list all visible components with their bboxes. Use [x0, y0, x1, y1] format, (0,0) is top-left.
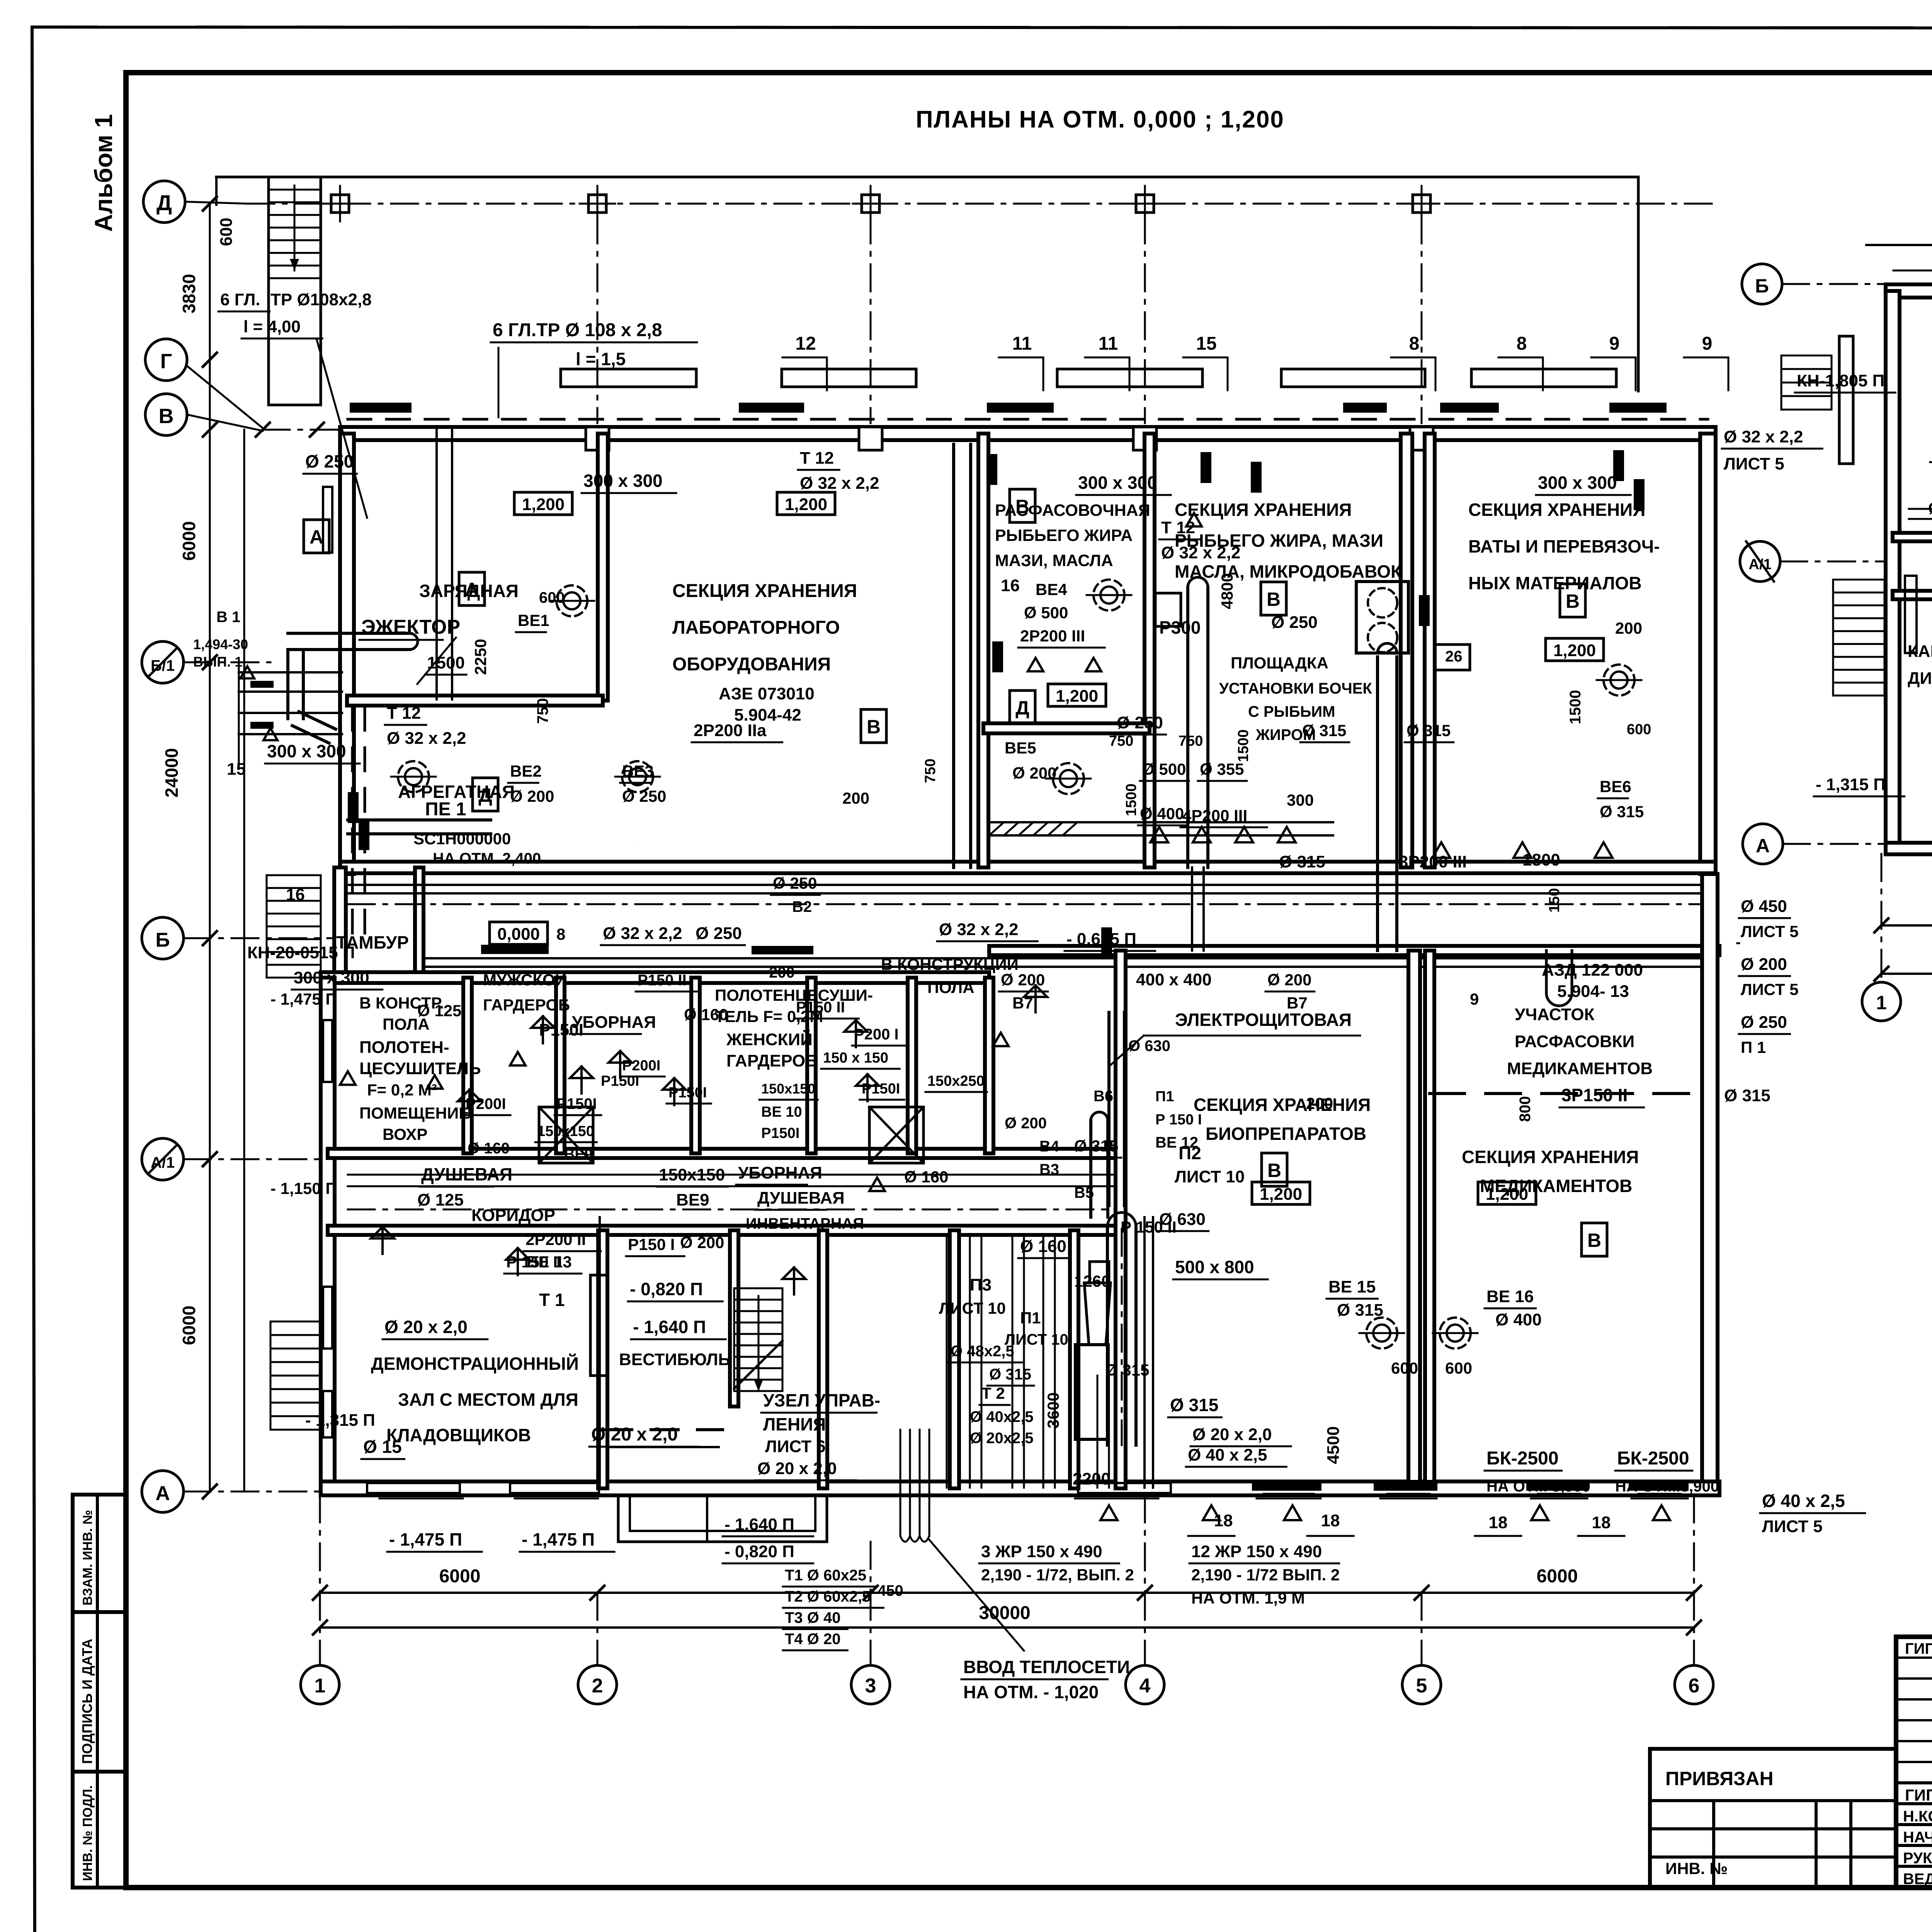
top-left stair	[269, 177, 321, 405]
svg-text:НЫХ МАТЕРИАЛОВ: НЫХ МАТЕРИАЛОВ	[1468, 573, 1642, 593]
svg-text:П1: П1	[1020, 1309, 1041, 1327]
svg-text:Ø 315: Ø 315	[1105, 1361, 1149, 1379]
columns on axis Д	[331, 195, 349, 213]
0.000 block outer walls	[321, 978, 335, 1492]
svg-text:ЛАБОРАТОРНОГО: ЛАБОРАТОРНОГО	[672, 617, 840, 638]
svg-text:В2: В2	[792, 898, 812, 915]
U-duct near AZD	[1545, 951, 1548, 993]
svg-text:П1: П1	[1155, 1088, 1174, 1105]
left outside stair bottom	[270, 1321, 321, 1323]
svg-text:Т3 Ø 40: Т3 Ø 40	[785, 1609, 841, 1626]
svg-text:ВЕ1: ВЕ1	[518, 611, 549, 629]
svg-text:2Р200 III: 2Р200 III	[1020, 627, 1085, 645]
svg-text:18: 18	[1592, 1513, 1611, 1532]
svg-text:9: 9	[1470, 990, 1479, 1008]
svg-text:Ø 32 х 2,2: Ø 32 х 2,2	[1161, 543, 1240, 562]
svg-text:КН-1,805 П: КН-1,805 П	[1797, 371, 1884, 390]
svg-text:ВЫП. 1: ВЫП. 1	[193, 654, 242, 670]
svg-text:ВАТЫ И ПЕРЕВЯЗОЧ-: ВАТЫ И ПЕРЕВЯЗОЧ-	[1468, 536, 1660, 556]
tambur walls	[415, 867, 423, 978]
svg-text:Т1 Ø 60х25: Т1 Ø 60х25	[785, 1567, 866, 1584]
svg-text:F= 0,2 М²: F= 0,2 М²	[367, 1081, 437, 1099]
svg-text:ИНВ. №: ИНВ. №	[1665, 1859, 1728, 1878]
svg-text:Д: Д	[156, 190, 172, 215]
plan2 broken upper boundary	[1866, 244, 1932, 246]
svg-text:Ø 40х2,5: Ø 40х2,5	[970, 1408, 1034, 1425]
svg-text:Ø 40 х 2,5: Ø 40 х 2,5	[1188, 1446, 1267, 1464]
svg-text:Ø 160: Ø 160	[1020, 1237, 1066, 1256]
svg-text:2,190 - 1/72, ВЫП. 2: 2,190 - 1/72, ВЫП. 2	[981, 1566, 1134, 1584]
svg-text:6000: 6000	[439, 1566, 481, 1587]
tall ducts near electro room	[1089, 1121, 1092, 1217]
svg-text:Т 1: Т 1	[539, 1290, 565, 1310]
svg-text:2200: 2200	[1073, 1469, 1111, 1488]
svg-text:6000: 6000	[1537, 1566, 1578, 1587]
svg-text:УБОРНАЯ: УБОРНАЯ	[572, 1013, 656, 1032]
svg-text:Ø 250: Ø 250	[696, 924, 742, 943]
svg-text:Р150 II: Р150 II	[638, 972, 687, 989]
svg-text:300 х 300: 300 х 300	[1538, 473, 1617, 493]
svg-text:l = 1,5: l = 1,5	[576, 349, 626, 369]
svg-text:200: 200	[842, 789, 869, 807]
riser flags	[542, 1016, 544, 1043]
svg-text:- 1,640 П: - 1,640 П	[633, 1317, 706, 1337]
svg-text:2Р200 II: 2Р200 II	[526, 1230, 586, 1248]
dashed upper boundary medikamenty	[1430, 1092, 1704, 1095]
svg-text:Ø 20х2,5: Ø 20х2,5	[970, 1430, 1034, 1447]
svg-text:150х150: 150х150	[659, 1165, 725, 1184]
svg-text:ЖЕНСКИЙ: ЖЕНСКИЙ	[726, 1029, 813, 1049]
axis Г/В dash-dot	[263, 429, 340, 431]
bottom wall radiators	[1252, 1480, 1321, 1491]
KH panel left	[1839, 336, 1853, 464]
black duct dampers	[1201, 452, 1211, 483]
svg-text:ПОЛОТЕНЦЕСУШИ-: ПОЛОТЕНЦЕСУШИ-	[715, 986, 873, 1004]
svg-text:ВЗАМ. ИНВ. №: ВЗАМ. ИНВ. №	[80, 1510, 95, 1605]
axis Б/1	[142, 641, 184, 683]
svg-text:Ø 20 х 2,0: Ø 20 х 2,0	[1192, 1425, 1272, 1444]
axis А	[142, 1471, 184, 1512]
0.000 partitions lower row	[598, 1230, 607, 1488]
fans top band	[1094, 580, 1124, 611]
svg-text:l = 4,00: l = 4,00	[243, 317, 301, 336]
svg-text:П3: П3	[970, 1276, 992, 1294]
svg-text:Ø 32 х 2,2: Ø 32 х 2,2	[1724, 427, 1803, 446]
svg-text:ЭЛЕКТРОЩИТОВАЯ: ЭЛЕКТРОЩИТОВАЯ	[1175, 1010, 1352, 1030]
svg-text:18: 18	[1321, 1511, 1340, 1530]
svg-text:ЛИСТ 5: ЛИСТ 5	[1741, 980, 1799, 998]
left outside stair mid	[267, 874, 321, 876]
svg-text:400 х 400: 400 х 400	[1136, 970, 1212, 989]
svg-text:РЫБЬЕГО ЖИРА: РЫБЬЕГО ЖИРА	[995, 526, 1133, 545]
axis Б	[142, 917, 184, 959]
pipe strip between blocks	[348, 884, 1708, 886]
svg-text:Б/1: Б/1	[151, 657, 175, 674]
svg-text:В КОНСТРУКЦИИ: В КОНСТРУКЦИИ	[881, 955, 1019, 973]
svg-text:А: А	[155, 1482, 170, 1505]
svg-text:750: 750	[922, 759, 939, 783]
svg-text:750: 750	[1109, 733, 1133, 749]
vestibule stair	[734, 1287, 782, 1289]
platform band Ploshchadka	[1155, 821, 1333, 823]
0.000 partitions upper row	[463, 978, 472, 1153]
svg-text:6 ГЛ.ТР Ø 108 х 2,8: 6 ГЛ.ТР Ø 108 х 2,8	[493, 320, 662, 340]
svg-text:15: 15	[1196, 333, 1216, 354]
svg-text:СЕКЦИЯ ХРАНЕНИЯ: СЕКЦИЯ ХРАНЕНИЯ	[1462, 1147, 1639, 1167]
svg-text:ПЛАНЫ НА ОТМ. 0,000 ; 1,20: ПЛАНЫ НА ОТМ. 0,000 ; 1,200	[916, 106, 1284, 133]
svg-text:Ø 500: Ø 500	[1024, 604, 1068, 622]
svg-text:9: 9	[1609, 333, 1620, 354]
svg-text:Р150I: Р150I	[761, 1125, 799, 1141]
svg-text:3830: 3830	[179, 274, 199, 313]
svg-text:ПОЛОТЕН-: ПОЛОТЕН-	[359, 1038, 449, 1057]
svg-text:СЕКЦИЯ ХРАНЕНИЯ: СЕКЦИЯ ХРАНЕНИЯ	[672, 581, 857, 601]
svg-text:МАЗИ, МАСЛА: МАЗИ, МАСЛА	[995, 551, 1113, 570]
duct in zaryadnaya right wall	[435, 430, 438, 699]
top band outer walls (1.200 level)	[340, 427, 1716, 440]
svg-text:Т4 Ø 20: Т4 Ø 20	[785, 1631, 841, 1648]
svg-text:В: В	[1566, 590, 1580, 612]
level mark boxes	[514, 492, 572, 515]
svg-text:150х150: 150х150	[537, 1123, 594, 1139]
corridor walls 0.000	[328, 1149, 1121, 1158]
svg-text:Ø 40 х 2,5: Ø 40 х 2,5	[1762, 1491, 1845, 1511]
signatures table	[1896, 1637, 1932, 1888]
svg-text:600: 600	[1391, 1359, 1418, 1377]
svg-text:- 0,820 П: - 0,820 П	[630, 1279, 703, 1299]
svg-text:ГАРДЕРОБ: ГАРДЕРОБ	[726, 1051, 818, 1070]
svg-text:Ø 315: Ø 315	[1337, 1301, 1383, 1320]
svg-text:Ø 250: Ø 250	[1741, 1013, 1787, 1032]
svg-text:Ø 160: Ø 160	[684, 1005, 728, 1024]
svg-text:Ø 250: Ø 250	[1117, 713, 1163, 732]
axis circle Д	[143, 181, 185, 223]
plan2 left outside stair	[1833, 579, 1884, 581]
svg-text:А: А	[465, 579, 479, 600]
svg-text:450: 450	[878, 1582, 903, 1599]
svg-text:3: 3	[865, 1675, 876, 1697]
radiators top wall	[350, 403, 412, 413]
svg-text:750: 750	[534, 698, 551, 724]
svg-text:БК-2500: БК-2500	[1617, 1448, 1689, 1469]
svg-text:ЦЕСУШИТЕЛЬ: ЦЕСУШИТЕЛЬ	[359, 1059, 481, 1078]
svg-text:А: А	[310, 526, 323, 548]
500x800 duct vertical	[1106, 1227, 1109, 1445]
svg-text:Ø 20 х 2,0: Ø 20 х 2,0	[591, 1424, 678, 1445]
svg-text:ВЕ4: ВЕ4	[1036, 580, 1067, 599]
svg-text:200: 200	[769, 964, 795, 981]
svg-text:Ø 200: Ø 200	[1005, 1115, 1047, 1132]
svg-text:150: 150	[1546, 888, 1563, 912]
svg-text:- 1,475 П: - 1,475 П	[389, 1529, 462, 1549]
X-box shafts	[539, 1107, 593, 1163]
svg-text:4800: 4800	[1218, 573, 1236, 609]
T1 riser on wall	[590, 1275, 607, 1376]
svg-text:4500: 4500	[1324, 1426, 1343, 1464]
plan2 pipe runs corridor	[1909, 518, 1932, 520]
svg-text:В3: В3	[1039, 1161, 1059, 1178]
svg-text:Ø 315: Ø 315	[1074, 1137, 1118, 1155]
svg-text:Ø 160: Ø 160	[468, 1140, 510, 1157]
svg-text:16: 16	[286, 885, 305, 904]
svg-text:Ø 250: Ø 250	[305, 451, 354, 471]
left wall window marks	[323, 487, 332, 553]
svg-text:6000: 6000	[179, 521, 199, 561]
svg-text:В: В	[1267, 588, 1281, 610]
svg-text:Р150 I: Р150 I	[628, 1235, 675, 1253]
dashed 300x300 duct agregatnaya	[351, 707, 354, 943]
svg-text:300 х 300: 300 х 300	[583, 471, 663, 491]
svg-text:ИНВЕНТАРНАЯ: ИНВЕНТАРНАЯ	[746, 1215, 864, 1232]
svg-text:30000: 30000	[979, 1603, 1030, 1623]
svg-text:1,200: 1,200	[522, 495, 565, 514]
ejector duct	[288, 648, 410, 651]
svg-text:ЛИСТ 5: ЛИСТ 5	[1762, 1517, 1823, 1536]
svg-text:ВЕ6: ВЕ6	[1600, 777, 1631, 796]
svg-text:В5: В5	[1074, 1184, 1094, 1201]
svg-text:1260: 1260	[1074, 1272, 1110, 1290]
left margin stamp boxes	[73, 1495, 126, 1888]
big vertical duct risers top band	[1186, 587, 1189, 867]
svg-text:Ø 400: Ø 400	[1495, 1310, 1542, 1329]
box 26	[1434, 645, 1470, 670]
svg-text:Ø 250: Ø 250	[1271, 613, 1318, 632]
svg-text:ДИРЕКТОРА: ДИРЕКТОРА	[1908, 669, 1932, 688]
svg-text:ЛИСТ 10: ЛИСТ 10	[1005, 1331, 1068, 1348]
svg-text:1,494-30: 1,494-30	[193, 636, 248, 652]
svg-text:ВЕ 16: ВЕ 16	[1486, 1287, 1534, 1306]
svg-text:ГИП: ГИП	[1905, 1640, 1932, 1657]
svg-text:А/1: А/1	[151, 1154, 175, 1171]
svg-text:500 х 800: 500 х 800	[1175, 1257, 1254, 1277]
svg-text:В7: В7	[1012, 994, 1033, 1012]
porch below vestibule	[618, 1495, 827, 1542]
svg-text:А: А	[1756, 835, 1770, 857]
wall pilasters	[586, 427, 609, 450]
svg-text:Ø 315: Ø 315	[1302, 721, 1346, 740]
svg-text:Н.КОНТР.: Н.КОНТР.	[1903, 1808, 1932, 1825]
plan2 heating dashed top	[1893, 270, 1932, 272]
svg-text:УЗЕЛ УПРАВ-: УЗЕЛ УПРАВ-	[763, 1390, 880, 1410]
svg-text:Ø 125: Ø 125	[417, 1190, 464, 1209]
svg-text:ВВОД ТЕПЛОСЕТИ: ВВОД ТЕПЛОСЕТИ	[963, 1657, 1130, 1677]
outer thin border	[32, 27, 1932, 28]
svg-text:2Р200 IIа: 2Р200 IIа	[694, 721, 767, 740]
svg-text:Ø 315: Ø 315	[1279, 852, 1325, 871]
svg-text:1500: 1500	[1123, 784, 1139, 816]
svg-text:ПЕ 1: ПЕ 1	[425, 799, 466, 820]
plan2 axis circles left	[1742, 264, 1782, 304]
svg-text:8: 8	[556, 925, 565, 943]
svg-text:ЛИСТ 10: ЛИСТ 10	[1175, 1167, 1245, 1186]
teploset entry pipes	[900, 1430, 901, 1536]
svg-text:2,190 - 1/72 ВЫП. 2: 2,190 - 1/72 ВЫП. 2	[1191, 1566, 1340, 1584]
svg-text:2250: 2250	[471, 639, 490, 675]
svg-text:12: 12	[795, 333, 816, 354]
svg-text:6 ГЛ.: 6 ГЛ.	[220, 290, 260, 309]
svg-text:Р150I: Р150I	[862, 1081, 900, 1097]
section letter boxes	[304, 520, 329, 553]
svg-text:КОРИДОР: КОРИДОР	[471, 1206, 555, 1225]
svg-text:18: 18	[1489, 1513, 1508, 1532]
svg-text:В7: В7	[1287, 994, 1308, 1012]
svg-text:Ø 160: Ø 160	[904, 1168, 948, 1186]
svg-text:Д: Д	[478, 784, 492, 806]
svg-text:А/1: А/1	[1748, 556, 1771, 573]
svg-text:- 1,475 П: - 1,475 П	[522, 1529, 595, 1549]
svg-text:Ø 32 х 2,2: Ø 32 х 2,2	[387, 729, 466, 748]
svg-text:С РЫБЬИМ: С РЫБЬИМ	[1248, 703, 1335, 720]
svg-text:750: 750	[1179, 733, 1203, 749]
svg-text:1,200: 1,200	[1553, 641, 1596, 660]
svg-text:ПРИВЯЗАН: ПРИВЯЗАН	[1665, 1768, 1774, 1789]
svg-text:4Р200 III: 4Р200 III	[1182, 806, 1247, 825]
svg-text:ЛЕНИЯ: ЛЕНИЯ	[763, 1414, 826, 1434]
svg-text:РУК. ГР.: РУК. ГР.	[1903, 1850, 1932, 1867]
svg-text:Ø 355: Ø 355	[1200, 760, 1244, 778]
svg-text:ВЕ2: ВЕ2	[510, 762, 542, 780]
svg-text:- 1.640 П: - 1.640 П	[724, 1515, 794, 1534]
svg-text:5.904- 13: 5.904- 13	[1557, 982, 1629, 1001]
privyazan box	[1650, 1747, 1896, 1751]
svg-text:УЧАСТОК: УЧАСТОК	[1515, 1005, 1595, 1024]
duct strip left	[348, 832, 491, 835]
svg-text:Ø 32 х 2,2: Ø 32 х 2,2	[939, 920, 1018, 939]
svg-text:6: 6	[1689, 1675, 1700, 1697]
svg-text:ТР Ø108х2,8: ТР Ø108х2,8	[270, 290, 372, 309]
svg-text:ВЕД.ИНЖ.: ВЕД.ИНЖ.	[1903, 1871, 1932, 1888]
svg-text:12 ЖР 150 х 490: 12 ЖР 150 х 490	[1191, 1542, 1322, 1561]
svg-text:Ø 20 х 2,0: Ø 20 х 2,0	[757, 1459, 837, 1478]
svg-text:ПОЛА: ПОЛА	[927, 978, 975, 997]
svg-text:КЛАДОВЩИКОВ: КЛАДОВЩИКОВ	[386, 1425, 531, 1445]
0.000 block top wall	[321, 972, 989, 983]
svg-text:600: 600	[1627, 721, 1651, 738]
barrel platform	[1356, 582, 1408, 653]
svg-text:Т2 Ø 60х2,5: Т2 Ø 60х2,5	[785, 1588, 871, 1605]
plan2 corridor walls	[1893, 533, 1932, 541]
svg-text:НА ОТМ. 1,9 М: НА ОТМ. 1,9 М	[1191, 1589, 1305, 1607]
axis bottom circles	[301, 1665, 339, 1704]
svg-text:П 1: П 1	[1741, 1038, 1766, 1056]
svg-text:Т 12: Т 12	[800, 449, 834, 468]
svg-text:ИНВ. № ПОДЛ.: ИНВ. № ПОДЛ.	[80, 1785, 95, 1881]
vert pipes mid lower	[946, 1236, 948, 1488]
svg-text:БИОПРЕПАРАТОВ: БИОПРЕПАРАТОВ	[1206, 1124, 1366, 1144]
svg-text:Ø 400: Ø 400	[1140, 804, 1184, 823]
svg-text:300 х 300: 300 х 300	[1078, 473, 1157, 493]
svg-text:300 х 300: 300 х 300	[267, 741, 346, 761]
misc leader lines top band	[498, 348, 500, 417]
svg-text:ДУШЕВАЯ: ДУШЕВАЯ	[757, 1189, 845, 1207]
svg-text:В: В	[1267, 1160, 1281, 1181]
svg-text:Р200I: Р200I	[622, 1058, 660, 1074]
svg-text:8: 8	[1517, 333, 1527, 354]
axis verticals up from dim line	[319, 1495, 321, 1593]
window sills below bottom wall	[379, 1498, 463, 1500]
dimension row bottom plan1	[320, 1592, 1694, 1594]
svg-text:ВЕ 10: ВЕ 10	[761, 1104, 802, 1120]
svg-text:Ø 315: Ø 315	[1406, 721, 1451, 740]
left dim verticals	[209, 205, 211, 1492]
svg-text:НА ОТМ.3,900: НА ОТМ.3,900	[1615, 1478, 1719, 1495]
svg-text:НАЧ.ОТА.: НАЧ.ОТА.	[1903, 1829, 1932, 1846]
svg-text:ПОМЕЩЕНИЕ: ПОМЕЩЕНИЕ	[359, 1104, 469, 1122]
svg-text:МЕДИКАМЕНТОВ: МЕДИКАМЕНТОВ	[1480, 1176, 1632, 1196]
svg-text:ВЕ9: ВЕ9	[564, 1146, 593, 1163]
svg-text:3Р150 II: 3Р150 II	[1561, 1085, 1628, 1105]
svg-text:Р200I: Р200I	[466, 1095, 506, 1112]
svg-text:Д: Д	[1015, 697, 1029, 719]
top band bottom wall	[340, 862, 1716, 873]
svg-text:Ø 200: Ø 200	[1267, 971, 1311, 989]
svg-text:В: В	[1587, 1230, 1601, 1251]
plan2 outer walls	[1886, 284, 1932, 298]
svg-text:НА ОТМ 3,900: НА ОТМ 3,900	[1486, 1478, 1590, 1495]
svg-text:Р 150 I: Р 150 I	[1155, 1112, 1202, 1128]
svg-text:Ø 125: Ø 125	[417, 1002, 461, 1020]
fans bottom rooms	[1366, 1318, 1397, 1349]
plan2 axis circles bottom	[1862, 982, 1901, 1021]
canopy top line	[216, 177, 1638, 391]
grid verticals from axis D down	[597, 216, 599, 423]
svg-text:ДУШЕВАЯ: ДУШЕВАЯ	[421, 1164, 512, 1184]
svg-text:ОБОРУДОВАНИЯ: ОБОРУДОВАНИЯ	[672, 654, 831, 675]
svg-text:ВЕ9: ВЕ9	[676, 1190, 709, 1209]
svg-text:16: 16	[1001, 576, 1020, 595]
svg-text:- 0,820 П: - 0,820 П	[724, 1542, 794, 1561]
heating main dashed along top wall	[348, 418, 1708, 421]
svg-text:200: 200	[1615, 619, 1642, 637]
svg-text:АЗЕ 073010: АЗЕ 073010	[719, 684, 815, 703]
svg-text:8: 8	[1409, 333, 1420, 354]
svg-text:0,000: 0,000	[497, 925, 540, 944]
svg-text:Ø 630: Ø 630	[1159, 1210, 1206, 1229]
svg-text:- 1,315 П: - 1,315 П	[305, 1411, 375, 1430]
svg-text:ЛИСТ 5: ЛИСТ 5	[1724, 454, 1784, 473]
svg-text:1500: 1500	[1235, 730, 1252, 762]
svg-text:ВОХР: ВОХР	[383, 1125, 427, 1143]
svg-text:УБОРНАЯ: УБОРНАЯ	[738, 1163, 822, 1182]
svg-text:5: 5	[1416, 1675, 1427, 1697]
svg-text:200: 200	[1306, 1094, 1333, 1112]
svg-text:МЕДИКАМЕНТОВ: МЕДИКАМЕНТОВ	[1507, 1059, 1653, 1078]
svg-text:Ø 32 х 2,2: Ø 32 х 2,2	[603, 924, 682, 943]
svg-text:Ø 200: Ø 200	[1741, 955, 1787, 974]
svg-text:1,200: 1,200	[785, 495, 827, 514]
svg-text:1500: 1500	[1567, 690, 1584, 724]
axis А/1	[142, 1138, 184, 1180]
svg-text:Т 2: Т 2	[981, 1384, 1005, 1402]
svg-text:ВЕ 15: ВЕ 15	[1328, 1277, 1376, 1296]
corridor radiator bars	[481, 945, 549, 954]
axis В circle	[145, 394, 187, 435]
svg-text:Ø 500: Ø 500	[1142, 760, 1186, 778]
svg-text:ЛИСТ 10: ЛИСТ 10	[939, 1299, 1006, 1317]
triangles rows	[1150, 827, 1168, 842]
svg-text:- 1,475 П: - 1,475 П	[270, 990, 337, 1008]
svg-text:ВЕ5: ВЕ5	[1005, 739, 1036, 757]
svg-text:ПОДПИСЬ И ДАТА: ПОДПИСЬ И ДАТА	[79, 1639, 95, 1764]
svg-text:- 1,150 П: - 1,150 П	[270, 1179, 337, 1197]
svg-text:Ø 32 х 2,2: Ø 32 х 2,2	[800, 474, 879, 493]
svg-text:Р150I: Р150I	[556, 1095, 597, 1112]
bottom windows plan1	[386, 1482, 456, 1484]
P1 equipment tank	[1090, 1262, 1109, 1283]
svg-text:600: 600	[539, 589, 565, 606]
svg-text:БК-2500: БК-2500	[1486, 1448, 1559, 1469]
svg-text:ВЕСТИБЮЛЬ: ВЕСТИБЮЛЬ	[619, 1350, 730, 1369]
